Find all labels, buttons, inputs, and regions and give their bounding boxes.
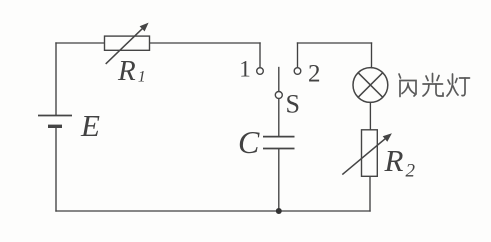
node 1 (switch contact) — [257, 68, 264, 75]
wire contact-1 drop — [259, 43, 261, 67]
svg-text:R: R — [384, 143, 404, 178]
junction node (bottom) — [276, 208, 282, 214]
wire contact-2 top horizontal to lamp — [298, 42, 372, 44]
wire switch lever — [278, 68, 280, 92]
wire bottom horizontal — [56, 210, 370, 212]
svg-text:E: E — [80, 108, 100, 143]
wire capacitor bottom lead — [278, 149, 280, 211]
wire left vertical battery top lead — [55, 43, 57, 115]
svg-text:C: C — [238, 124, 260, 160]
wire lamp top lead — [371, 43, 373, 68]
wire switch pole to capacitor — [278, 99, 280, 136]
char 灯 — [447, 74, 470, 96]
svg-text:1: 1 — [138, 69, 146, 86]
lamp (flash lamp) — [353, 68, 388, 103]
svg-text:1: 1 — [239, 57, 251, 82]
node 2 (switch contact) — [294, 68, 301, 75]
wire left vertical battery bottom lead — [55, 127, 57, 211]
resistor R1 (variable) — [105, 26, 150, 64]
svg-text:R: R — [117, 55, 136, 87]
label 闪光灯 (drawn glyphs) — [399, 74, 470, 97]
switch S pole — [275, 92, 282, 99]
svg-text:S: S — [286, 90, 300, 119]
char 光 — [423, 74, 443, 97]
capacitor C — [263, 137, 295, 149]
svg-text:2: 2 — [406, 161, 416, 182]
char 闪 — [399, 74, 416, 97]
battery E — [38, 116, 72, 127]
wire R2 bottom lead — [369, 176, 371, 211]
wire lamp to R2 — [369, 103, 371, 130]
wire from R1 right to contact-1 corner — [149, 42, 260, 44]
resistor R2 (variable) — [342, 130, 387, 177]
wire contact-2 drop — [297, 43, 299, 67]
svg-text:2: 2 — [308, 61, 321, 88]
wire top-left horizontal from left corner to R1 — [56, 42, 105, 44]
